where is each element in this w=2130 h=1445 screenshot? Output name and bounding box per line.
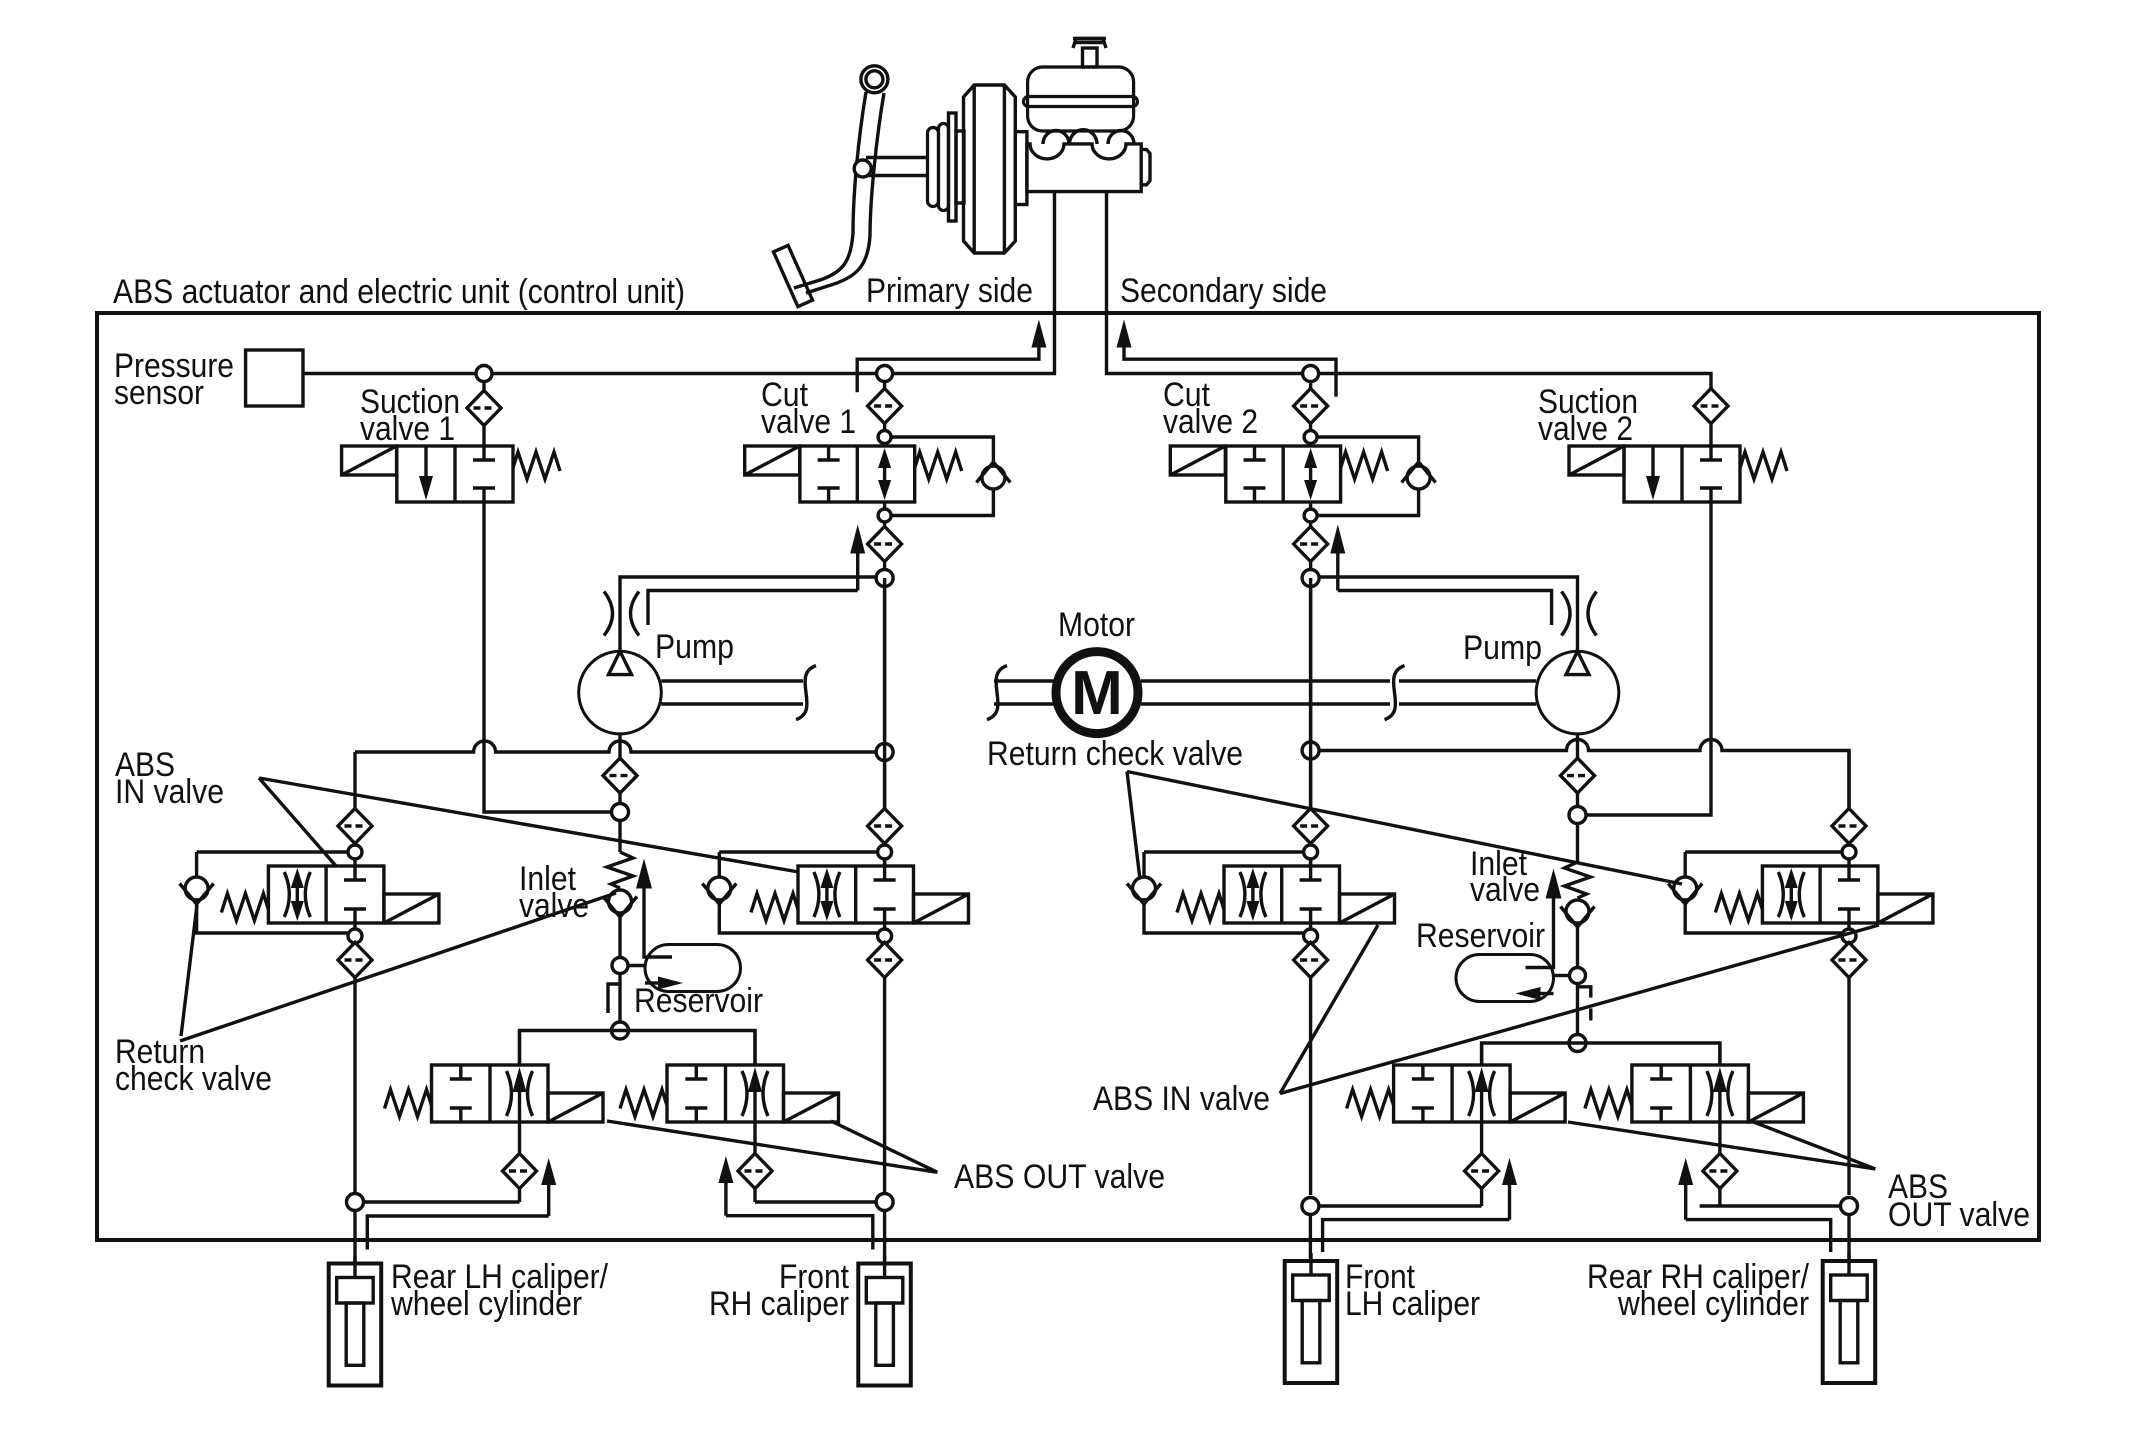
svg-text:valve 1: valve 1 [761,403,856,441]
svg-text:Pump: Pump [1463,629,1542,667]
svg-text:wheel cylinder: wheel cylinder [390,1285,582,1323]
svg-text:valve 2: valve 2 [1163,403,1258,441]
svg-text:valve 1: valve 1 [360,410,455,448]
svg-text:Motor: Motor [1058,606,1135,644]
svg-text:ABS OUT valve: ABS OUT valve [954,1158,1165,1196]
svg-text:wheel cylinder: wheel cylinder [1617,1285,1809,1323]
svg-text:OUT valve: OUT valve [1888,1196,2030,1234]
svg-text:Secondary side: Secondary side [1120,272,1327,310]
svg-text:valve: valve [1470,871,1540,909]
svg-text:Pump: Pump [655,628,734,666]
svg-text:Primary side: Primary side [866,272,1033,310]
svg-text:ABS actuator and electric unit: ABS actuator and electric unit (control … [113,273,685,311]
svg-text:ABS IN valve: ABS IN valve [1093,1080,1270,1118]
svg-text:valve 2: valve 2 [1538,410,1633,448]
svg-text:LH caliper: LH caliper [1345,1285,1480,1323]
svg-text:Reservoir: Reservoir [634,982,763,1020]
svg-text:Reservoir: Reservoir [1416,917,1545,955]
svg-text:M: M [1071,659,1123,728]
svg-text:IN valve: IN valve [115,773,224,811]
svg-text:Return check valve: Return check valve [987,735,1243,773]
svg-text:sensor: sensor [114,374,204,412]
svg-text:RH caliper: RH caliper [709,1285,849,1323]
svg-text:valve: valve [519,887,589,925]
svg-text:check valve: check valve [115,1060,272,1098]
